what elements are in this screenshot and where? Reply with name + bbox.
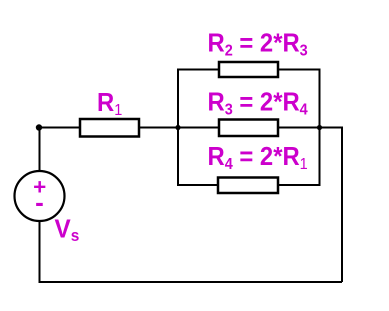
label R2 = 2*R3 — [208, 30, 308, 60]
label R1 — [97, 89, 122, 119]
wire: R3 branch right — [277, 127, 321, 129]
node B junction dot (left rail) — [175, 125, 180, 130]
node A junction dot — [36, 124, 42, 130]
svg-text:R2 = 2*R3: R2 = 2*R3 — [208, 30, 308, 60]
resistor R3 — [219, 120, 278, 137]
wire: R4 branch left — [177, 184, 218, 186]
wire: R2 branch left — [177, 69, 219, 71]
wire: left rail of parallel bank — [177, 70, 179, 186]
svg-text:-: - — [35, 187, 44, 217]
resistor R2 — [219, 62, 278, 77]
svg-text:R4 = 2*R1: R4 = 2*R1 — [208, 143, 308, 173]
wire: R4 branch right — [278, 184, 321, 186]
wire: node A to R1 left — [39, 127, 81, 129]
wire: right rail of parallel bank — [319, 70, 321, 186]
wire: R2 branch right — [277, 69, 321, 71]
wire: bottom return — [40, 281, 343, 283]
label R4 = 2*R1 — [208, 143, 308, 173]
voltage source V1 circle — [15, 171, 65, 221]
label R3 = 2*R4 — [208, 89, 309, 119]
wire: bottom-left up to source bottom — [39, 221, 41, 283]
wire: node B to top-right corner and down — [320, 128, 343, 283]
svg-text:R3 = 2*R4: R3 = 2*R4 — [208, 89, 309, 119]
wire: source top up to node A — [39, 127, 41, 172]
resistor R1 — [80, 119, 139, 137]
resistor R4 — [218, 178, 278, 194]
wire: R3 branch left — [177, 127, 219, 129]
node C junction dot (right rail) — [317, 125, 322, 130]
wire: R1 right to left rail — [138, 127, 178, 129]
label Vs — [55, 215, 80, 245]
